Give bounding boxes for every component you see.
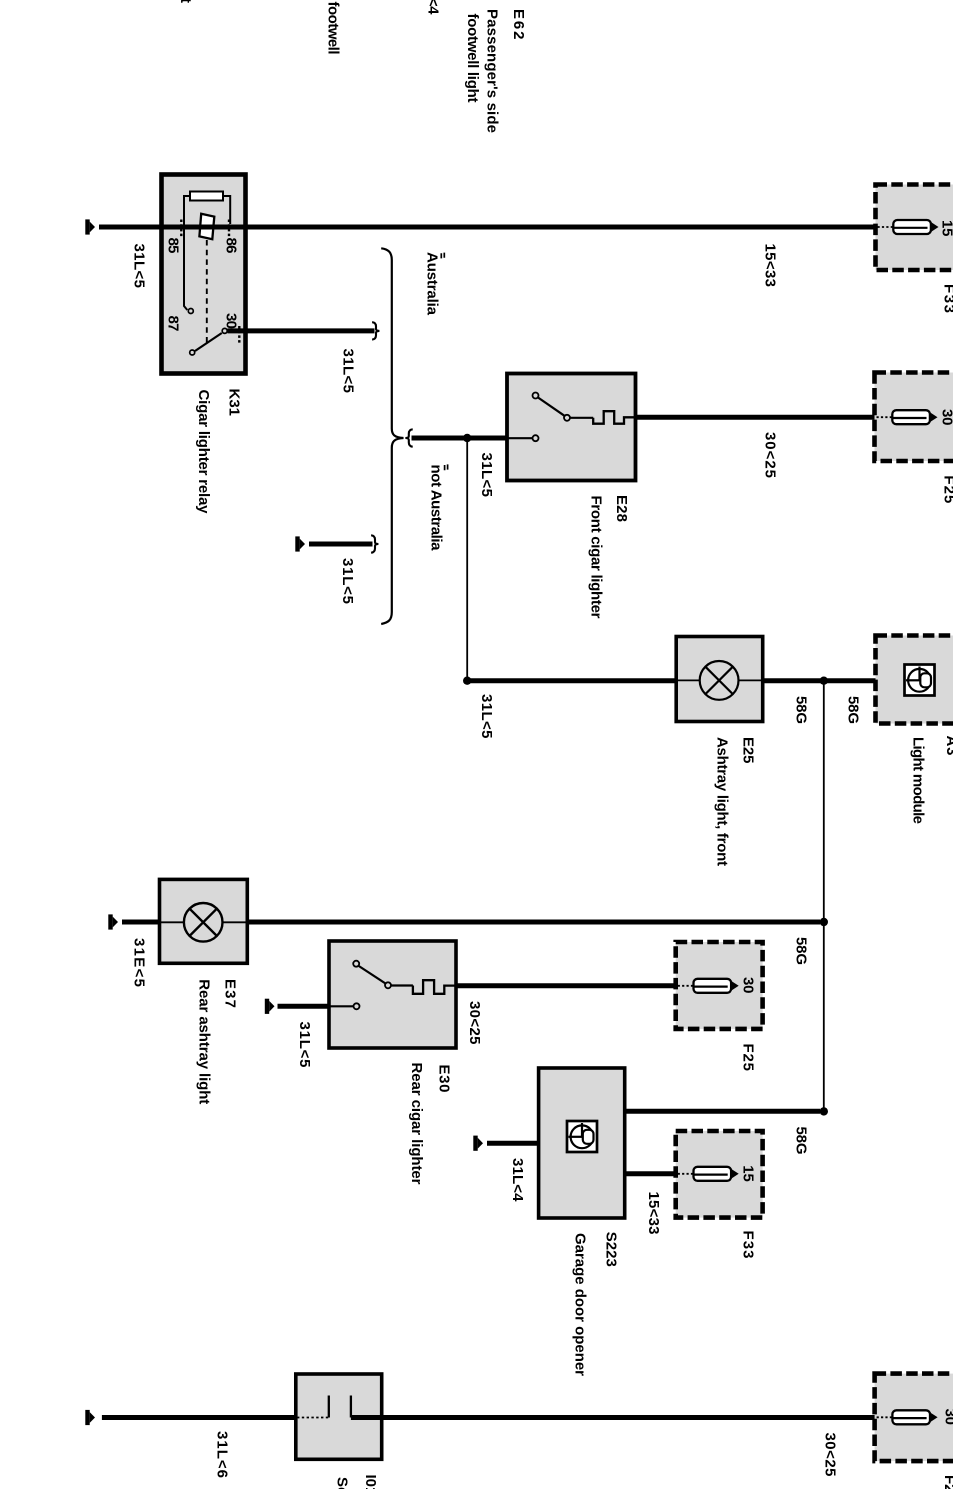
light module A3 box	[876, 636, 953, 724]
svg-text:31L<6: 31L<6	[214, 1431, 231, 1478]
svg-text:15<33: 15<33	[762, 244, 779, 288]
svg-text:30<25: 30<25	[762, 432, 779, 478]
E37 lamp	[184, 903, 223, 942]
fuse F25 box row7	[875, 1374, 953, 1462]
pin 85 tick	[180, 220, 182, 238]
fuse F33 box row6	[676, 1131, 763, 1218]
svg-text:30<25: 30<25	[466, 1001, 483, 1045]
wire row4 right	[247, 920, 820, 925]
fuse F33 box row1	[876, 185, 953, 271]
wire row2 left (not Australia)	[412, 436, 508, 441]
E28 lower pin lead	[507, 437, 532, 439]
svg-text:A3: A3	[943, 736, 953, 756]
svg-text:F25: F25	[740, 1044, 757, 1072]
svg-text:31L<5: 31L<5	[296, 1022, 313, 1068]
svg-text:86: 86	[223, 238, 240, 254]
option brace small end	[372, 322, 379, 339]
wire S223 bottom right	[625, 1171, 676, 1176]
wire row1 main	[99, 225, 876, 230]
vertical link wire 2	[823, 681, 825, 1112]
svg-text:Passenger's side: Passenger's side	[484, 9, 501, 133]
E25 lamp lead left	[676, 679, 700, 681]
svg-text:t: t	[177, 0, 194, 3]
relay K31 box	[162, 175, 246, 374]
E28 switch arm	[538, 398, 565, 416]
svg-text:58G: 58G	[845, 696, 862, 724]
E25 lamp cross	[706, 667, 733, 694]
fuse F33 row6	[678, 1167, 739, 1181]
wire row3 right	[763, 678, 876, 683]
wire coil left to pin87	[184, 196, 191, 310]
svg-text:not Australia: not Australia	[428, 465, 445, 552]
svg-text:31L<4: 31L<4	[509, 1158, 526, 1202]
svg-text:15: 15	[939, 220, 953, 237]
ground terminal row1	[85, 219, 95, 234]
junction dot row3 left	[463, 677, 471, 685]
svg-text:E25: E25	[740, 737, 757, 764]
wire S223 top right	[625, 1109, 820, 1114]
wire row2 right	[636, 415, 875, 420]
pin 30 contact circle	[222, 328, 227, 333]
wire row7 right	[351, 1415, 875, 1420]
E28 lower pin circle	[533, 435, 539, 441]
svg-text:K31: K31	[226, 389, 243, 417]
cigar lighter switch E28 box	[507, 374, 636, 481]
E30 arm pivot circle	[385, 982, 391, 988]
svg-text:E62: E62	[510, 9, 527, 40]
svg-text:E28: E28	[613, 495, 630, 522]
svg-text:31L<5: 31L<5	[340, 349, 357, 394]
fuse F25 row7	[877, 1410, 938, 1424]
svg-text:31L<5: 31L<5	[339, 558, 356, 604]
fuse F25 row2	[877, 410, 938, 424]
footnote mark Australia	[441, 253, 444, 259]
svg-text:Rear cigar lighter: Rear cigar lighter	[408, 1063, 425, 1185]
wire K31 pin30 stub	[228, 328, 375, 333]
vertical link wire 1	[466, 438, 468, 681]
junction dot row3 right	[820, 677, 828, 685]
garage door opener S223 box	[539, 1068, 625, 1218]
svg-text:I01: I01	[362, 1475, 379, 1489]
E28 upper pin circle	[533, 393, 539, 399]
svg-text:30: 30	[939, 409, 953, 426]
E28 heater element	[593, 411, 635, 424]
wire row1 across contact	[196, 225, 219, 230]
E30 element lead	[391, 984, 413, 986]
ground terminal S223	[473, 1136, 483, 1151]
E37 lamp lead right	[222, 921, 247, 923]
relay coil	[190, 192, 223, 201]
wire row2.5 stub	[309, 542, 373, 547]
wire E30 lower left	[278, 1004, 330, 1009]
E30 upper pin circle	[353, 961, 359, 967]
svg-text:58G: 58G	[793, 1127, 810, 1155]
E37 lamp cross	[190, 909, 217, 936]
E37 lamp lead left	[160, 921, 185, 923]
E25 lamp lead right	[739, 679, 763, 681]
footnote mark not Australia	[445, 464, 448, 470]
wire row7 left	[102, 1415, 296, 1420]
svg-text:30: 30	[223, 313, 240, 329]
ashtray lamp E25 box	[676, 637, 763, 722]
wire coil right to pin86	[223, 196, 230, 224]
garage opener S223 icon	[567, 1121, 597, 1152]
svg-text:Socket: Socket	[334, 1477, 351, 1489]
svg-text:Garage door opener: Garage door opener	[572, 1233, 589, 1376]
svg-text:31L<4: 31L<4	[425, 0, 442, 15]
svg-text:E30: E30	[436, 1065, 453, 1093]
light module A3 icon	[905, 665, 935, 696]
svg-text:31L<5: 31L<5	[131, 244, 148, 289]
svg-text:Australia: Australia	[424, 252, 441, 316]
rear cigar lighter E30 box	[329, 941, 456, 1048]
svg-text:footwell light: footwell light	[464, 14, 481, 103]
pin 30 tick	[238, 326, 240, 344]
fuse F33 row1	[878, 220, 939, 234]
E30 switch arm	[359, 966, 386, 984]
relay armature dashed link	[206, 240, 208, 346]
svg-text:F25: F25	[941, 475, 953, 503]
svg-text:F25: F25	[941, 1475, 953, 1489]
svg-text:15<33: 15<33	[645, 1192, 662, 1235]
svg-text:E37: E37	[222, 979, 239, 1008]
wire row5 right	[456, 983, 676, 988]
ground terminal E30	[265, 999, 275, 1014]
fuse F25 box row2	[875, 373, 953, 462]
svg-text:30<25: 30<25	[822, 1433, 839, 1477]
fuse F25 box row5	[676, 942, 763, 1029]
svg-text:30: 30	[942, 1409, 953, 1426]
relay switch arm	[195, 333, 222, 351]
small closing brace row2.5	[371, 535, 378, 552]
svg-text:Cigar lighter relay: Cigar lighter relay	[195, 390, 212, 515]
svg-text:F33: F33	[740, 1231, 757, 1259]
svg-text:30: 30	[740, 977, 757, 994]
relay movable contact	[199, 214, 214, 239]
E30 heater element	[413, 980, 456, 994]
junction dot row4	[820, 918, 828, 926]
ground terminal row2.5	[295, 536, 305, 551]
svg-text:31L<5: 31L<5	[478, 694, 495, 739]
svg-text:Front cigar lighter: Front cigar lighter	[588, 496, 605, 619]
socket prong right	[350, 1396, 352, 1418]
svg-text:F33: F33	[941, 284, 953, 313]
small opening brace row2	[405, 429, 412, 446]
ground terminal row4	[108, 914, 118, 929]
E25 lamp	[700, 661, 739, 700]
E28 element lead	[570, 417, 593, 419]
svg-text:Rear ashtray light: Rear ashtray light	[196, 979, 213, 1104]
fuse F25 row5	[678, 979, 739, 993]
pin 87 contact circle	[188, 309, 193, 314]
svg-text:31E<5: 31E<5	[131, 938, 148, 987]
wire S223 left	[487, 1141, 539, 1146]
svg-text:58G: 58G	[793, 696, 810, 724]
svg-text:Ashtray light, front: Ashtray light, front	[713, 737, 730, 866]
rear ashtray lamp E37 box	[160, 879, 248, 963]
socket prong left	[328, 1396, 330, 1418]
svg-text:Light module: Light module	[910, 737, 927, 824]
wire row4	[122, 920, 160, 925]
wire row3	[467, 678, 676, 683]
svg-text:15: 15	[740, 1165, 757, 1182]
E30 lower pin lead	[329, 1005, 354, 1007]
ground terminal row7	[85, 1410, 95, 1425]
E28 arm pivot circle	[564, 415, 570, 421]
pin 86 tick	[228, 220, 230, 238]
E30 lower pin circle	[354, 1003, 360, 1009]
socket lead dotted	[297, 1417, 329, 1419]
junction dot row6	[820, 1107, 828, 1115]
switch rest contact circle	[190, 350, 195, 355]
svg-text:31L<5: 31L<5	[478, 453, 495, 498]
svg-text:87: 87	[165, 316, 182, 332]
big option brace	[381, 248, 403, 624]
svg-text:85: 85	[165, 238, 182, 254]
svg-text:58G: 58G	[793, 937, 810, 965]
socket box	[296, 1374, 382, 1459]
svg-text:footwell: footwell	[325, 2, 342, 55]
svg-text:S223: S223	[603, 1232, 620, 1267]
junction dot row2	[463, 434, 471, 442]
